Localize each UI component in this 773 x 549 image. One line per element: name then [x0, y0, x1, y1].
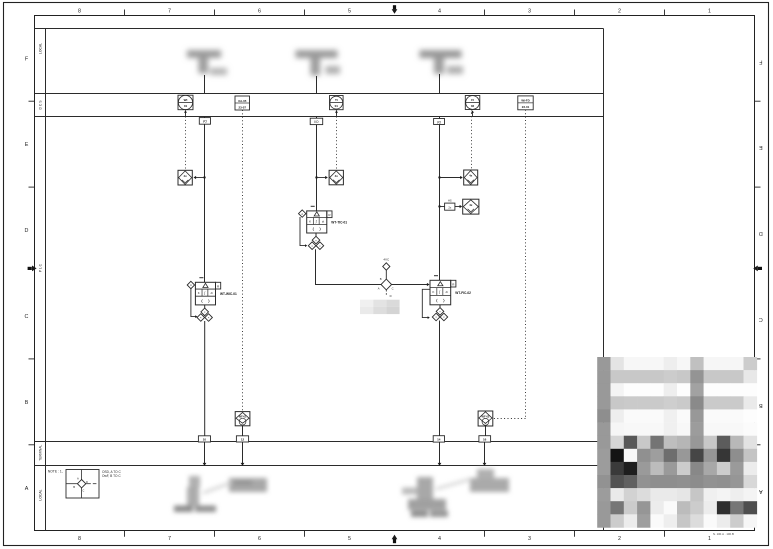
svg-text:XA‑05: XA‑05 [238, 99, 247, 103]
svg-text:2: 2 [618, 536, 621, 542]
wire terminal 2 to field [241, 442, 245, 466]
svg-text:7: 7 [168, 8, 171, 14]
input stub arrow under TI-01 [335, 110, 338, 116]
svg-text:I/O: I/O [437, 120, 442, 124]
wire HS box to PLC sym 4 [455, 205, 462, 208]
svg-text:C: C [392, 286, 394, 290]
svg-text:02: 02 [471, 104, 475, 108]
svg-text:23-07: 23-07 [239, 105, 247, 109]
bottom margin column numbers 8-1 [78, 536, 711, 542]
feedback line WT-WIC-01 [191, 289, 198, 318]
wire loop1 I/O to controller WT-WIC-01 [204, 124, 206, 282]
dotted signal WI-FD down [525, 110, 527, 419]
svg-text:NOTE : 1,: NOTE : 1, [48, 470, 63, 474]
svg-text:LOCAL: LOCAL [39, 43, 43, 54]
controller WT-TIC-01 [299, 206, 348, 233]
svg-text:dt: dt [446, 290, 448, 294]
wire terminal 1 to field [203, 442, 207, 466]
svg-text:1: 1 [708, 8, 711, 14]
pixelated title block mosaic [597, 357, 757, 528]
small diamond 4VC [383, 263, 390, 270]
terminal box 14 [433, 436, 444, 442]
top margin column numbers 8-1 [78, 8, 711, 14]
svg-text:14: 14 [437, 438, 441, 442]
svg-text:OwF, B TO C: OwF, B TO C [102, 474, 121, 478]
blurred field device tag 1 [187, 50, 227, 75]
svg-text:12: 12 [241, 438, 245, 442]
DCS alarm box XA-05 [235, 96, 250, 110]
svg-text:P L C: P L C [39, 263, 43, 272]
input stub arrow under FI-02 [471, 110, 474, 116]
svg-text:⋯: ⋯ [484, 421, 486, 424]
svg-text:⋯: ⋯ [241, 421, 243, 424]
right margin row letters F-A (rotated) [758, 58, 762, 494]
svg-text:❬: ❬ [312, 226, 315, 231]
svg-text:K: K [432, 290, 434, 294]
feedback line WT-TIC-01 [300, 217, 307, 247]
dotted signal FI-02 to PLC sym 3 [471, 110, 473, 171]
HS box [445, 199, 455, 211]
svg-text:C: C [82, 488, 84, 492]
selector port labels [378, 277, 394, 298]
wire from field device 2 [316, 76, 318, 94]
branch wire to PLC sym 3 [440, 176, 463, 179]
legend box [66, 470, 99, 499]
svg-text:WI: WI [184, 98, 188, 102]
legend port labels [73, 476, 88, 492]
svg-text:2: 2 [618, 8, 621, 14]
wire controller2 to cluster [315, 233, 317, 237]
svg-text:D: D [86, 480, 88, 484]
svg-text:❭: ❭ [442, 298, 445, 303]
svg-text:6: 6 [258, 8, 261, 14]
svg-text:I/O: I/O [203, 120, 208, 124]
left margin row ticks [29, 101, 35, 445]
svg-text:B: B [380, 277, 382, 281]
wire cluster3 down to terminal [439, 321, 441, 436]
legend cross lines [66, 470, 96, 499]
input stub arrow under WI-01 [184, 110, 187, 116]
wire 4VC to selector [385, 270, 387, 279]
PLC symbol 1 [178, 170, 192, 185]
blurred field device tag 2 [296, 50, 341, 75]
WF-01 symbol [235, 412, 250, 426]
wire loop3 I/O to controller WT-FIC-02 [439, 125, 441, 281]
svg-text:dt: dt [322, 219, 324, 223]
blurred local device group 2 [402, 469, 509, 517]
DCS indicator WI-01 [178, 95, 193, 110]
svg-text:WT‑FIC‑02: WT‑FIC‑02 [455, 291, 471, 295]
svg-text:8: 8 [78, 8, 81, 14]
svg-text:K: K [309, 219, 311, 223]
terminal box 12 [236, 436, 248, 442]
svg-text:4x: 4x [469, 203, 473, 207]
junction node loop1 [203, 176, 205, 178]
svg-text:A: A [77, 476, 79, 480]
dotted signal TI-01 to PLC sym 2 [336, 110, 338, 171]
DCS box WI-FD [518, 96, 533, 110]
svg-text:E: E [25, 142, 29, 148]
svg-text:5: 5 [348, 536, 351, 542]
svg-text:N. 100·A · 100·B: N. 100·A · 100·B [713, 532, 734, 536]
svg-text:4x: 4x [469, 174, 473, 178]
wire from field device 1 [204, 75, 206, 94]
DCS indicator FI-02 [465, 96, 480, 110]
blurred local device group 1 [174, 476, 267, 512]
dotted signal horizontal into WF-02 [493, 418, 525, 420]
bottom margin column ticks [125, 531, 665, 537]
right margin row ticks [755, 101, 761, 445]
wire cluster1 down to terminal [204, 321, 206, 436]
svg-text:TERMINAL: TERMINAL [39, 445, 43, 461]
left margin row letters F-A [25, 56, 29, 492]
svg-text:K: K [198, 291, 200, 295]
wire WF-02 to terminal [485, 426, 487, 436]
svg-text:23-01: 23-01 [522, 105, 530, 109]
svg-text:B: B [759, 402, 763, 408]
svg-text:4x: 4x [335, 174, 339, 178]
branch wire to PLC sym 2 [317, 176, 328, 179]
PLC symbol 3 [464, 170, 478, 185]
svg-text:dt: dt [211, 291, 213, 295]
controller WT-FIC-02 [430, 276, 471, 305]
svg-text:4: 4 [438, 536, 441, 542]
drawing area right line [603, 29, 605, 531]
svg-text:3: 3 [528, 8, 531, 14]
svg-text:❭: ❭ [319, 226, 322, 231]
svg-text:D: D [759, 230, 763, 236]
svg-text:3: 3 [528, 536, 531, 542]
dotted signal XA-05 down to WF-01 [242, 110, 244, 412]
svg-text:WF‑01: WF‑01 [239, 415, 247, 419]
svg-text:7: 7 [168, 536, 171, 542]
legend diamond [77, 480, 85, 488]
dotted signal WI-01 to PLC sym 1 [185, 110, 187, 171]
wire loop2 I/O to controller WT-TIC-01 [316, 125, 318, 211]
zone label column line [45, 29, 47, 531]
svg-text:C: C [25, 314, 29, 320]
svg-text:C: C [759, 316, 763, 322]
wire controller3 to cluster [439, 305, 441, 308]
svg-text:10: 10 [203, 438, 207, 442]
I/O box loop 3 [434, 119, 445, 125]
svg-text:❬: ❬ [201, 298, 204, 303]
centering arrow right [753, 266, 762, 272]
svg-text:8: 8 [78, 536, 81, 542]
svg-text:4VC: 4VC [383, 258, 390, 262]
svg-text:❭: ❭ [207, 298, 210, 303]
DCS indicator TI-01 [330, 96, 344, 110]
svg-text:5: 5 [348, 8, 351, 14]
PLC symbol 4 [463, 199, 479, 214]
svg-text:16: 16 [483, 438, 487, 442]
junction node loop3 upper [438, 176, 440, 178]
junction node loop3 lower [438, 205, 440, 207]
centering arrow left [28, 266, 37, 272]
svg-text:D: D [390, 294, 392, 298]
wire terminal 4 to field [483, 442, 487, 466]
svg-text:HS: HS [448, 199, 452, 203]
DCS band bottom line [35, 116, 604, 118]
output cluster WT-TIC-01 [308, 236, 323, 249]
svg-text:01: 01 [335, 104, 339, 108]
junction node loop2 [315, 176, 317, 178]
output cluster WT-FIC-02 [432, 308, 447, 321]
wire cluster2 down then right to selector [316, 249, 382, 284]
svg-text:WT‑TIC‑01: WT‑TIC‑01 [331, 220, 347, 224]
svg-text:4x: 4x [184, 174, 188, 178]
selector diamond [381, 279, 392, 290]
wire WF-01 to terminal [242, 426, 244, 436]
svg-text:TI: TI [335, 98, 338, 102]
svg-text:B: B [25, 400, 29, 406]
svg-text:E: E [759, 144, 763, 150]
blurred field device tag 3 [420, 50, 464, 74]
svg-text:6: 6 [258, 536, 261, 542]
svg-text:WI‑FD: WI‑FD [521, 99, 529, 103]
svg-text:LOCAL: LOCAL [39, 489, 43, 500]
svg-text:A: A [759, 488, 763, 494]
output cluster WT-WIC-01 [197, 308, 212, 321]
svg-text:OSD, A TO C: OSD, A TO C [102, 470, 122, 474]
wire terminal 3 to field [438, 442, 442, 466]
selector D stub [385, 290, 387, 296]
svg-text:WT‑WIC‑01: WT‑WIC‑01 [220, 292, 237, 296]
wire to HS box [440, 206, 445, 208]
pixelated stamp patch [360, 300, 400, 314]
svg-text:FI: FI [471, 98, 474, 102]
legend description [102, 470, 122, 478]
svg-text:B: B [73, 485, 75, 489]
svg-text:1: 1 [708, 536, 711, 542]
I/O box loop 1 [199, 118, 210, 125]
wire controller1 to cluster [204, 305, 206, 308]
svg-text:A: A [378, 286, 380, 290]
svg-text:D C S: D C S [39, 100, 43, 110]
WF-02 symbol [478, 411, 493, 426]
terminal box 16 [479, 436, 491, 442]
DCS band top line [35, 93, 604, 95]
I/O box loop 2 [310, 118, 323, 124]
terminal band top line [35, 441, 604, 443]
wire loop2 band to I/O [316, 117, 318, 119]
svg-text:4: 4 [438, 8, 441, 14]
svg-text:01: 01 [184, 104, 188, 108]
drawing area top line [35, 28, 604, 30]
controller WT-WIC-01 [187, 278, 237, 305]
top margin column ticks [125, 10, 665, 16]
wire selector to WT-FIC-02 [392, 283, 430, 286]
branch wire to PLC sym 1 [194, 176, 205, 179]
wire loop3 band to I/O [439, 117, 441, 119]
feedback line WT-FIC-02 [422, 289, 430, 319]
svg-text:I/O: I/O [314, 120, 319, 124]
terminal box 10 [198, 436, 210, 442]
svg-text:A: A [25, 486, 29, 492]
PLC symbol 2 [329, 170, 343, 185]
wire from field device 3 [439, 74, 441, 94]
wire loop1 band to I/O [204, 117, 206, 118]
svg-text:WF‑02: WF‑02 [482, 415, 490, 419]
svg-text:❬: ❬ [435, 298, 438, 303]
centering arrow top [392, 5, 398, 14]
svg-text:D: D [25, 228, 29, 234]
terminal band bottom line [35, 465, 604, 467]
centering arrow bottom [392, 535, 398, 544]
